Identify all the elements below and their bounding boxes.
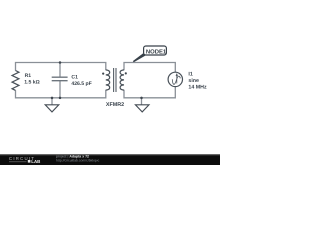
svg-text:1.5 kΩ: 1.5 kΩ <box>24 79 39 85</box>
svg-text:426.5 pF: 426.5 pF <box>71 81 91 87</box>
svg-text:NODE1: NODE1 <box>146 48 167 55</box>
wire C1 bottom lead <box>59 81 61 98</box>
transformer XFMR2 primary winding <box>106 70 110 90</box>
transformer core <box>114 68 116 92</box>
ground right <box>135 105 149 112</box>
svg-text:C1: C1 <box>71 75 78 81</box>
svg-text:LAB: LAB <box>31 159 40 164</box>
wire left loop bottom rail <box>16 90 106 98</box>
node junction dot C1 bottom <box>59 97 62 100</box>
svg-text:sine: sine <box>188 78 199 84</box>
current source I1 circle <box>168 72 182 86</box>
svg-text:14 MHz: 14 MHz <box>188 85 207 91</box>
wire ground stem right <box>141 98 143 105</box>
capacitor C1 <box>52 77 68 81</box>
wire right loop bottom rail <box>124 87 175 98</box>
resistor R1 <box>12 71 19 91</box>
node NODE1 label callout pointer <box>133 53 146 62</box>
transformer XFMR2 secondary winding <box>120 70 124 90</box>
node junction dot ground left <box>51 97 54 100</box>
wire C1 top lead <box>59 63 61 78</box>
wire left loop top rail <box>16 63 106 71</box>
svg-text:R1: R1 <box>25 73 32 79</box>
transformer phase dot primary <box>102 73 104 75</box>
node NODE1 label box <box>144 46 167 55</box>
svg-text:XFMR2: XFMR2 <box>106 102 124 108</box>
footer bar <box>0 154 220 165</box>
svg-text:I1: I1 <box>188 71 192 77</box>
node junction dot C1 top <box>59 61 62 64</box>
current source I1 arrow + sine glyph <box>172 75 180 84</box>
wire ground stem left <box>51 98 53 105</box>
node junction dot ground right <box>140 97 143 100</box>
svg-text:http://circuitlab.com/c/bkkqvc: http://circuitlab.com/c/bkkqvc <box>56 158 100 162</box>
transformer phase dot secondary <box>125 72 127 74</box>
footer logo line + LAB <box>9 161 27 163</box>
ground left <box>45 105 59 112</box>
wire right loop top rail <box>124 63 175 73</box>
